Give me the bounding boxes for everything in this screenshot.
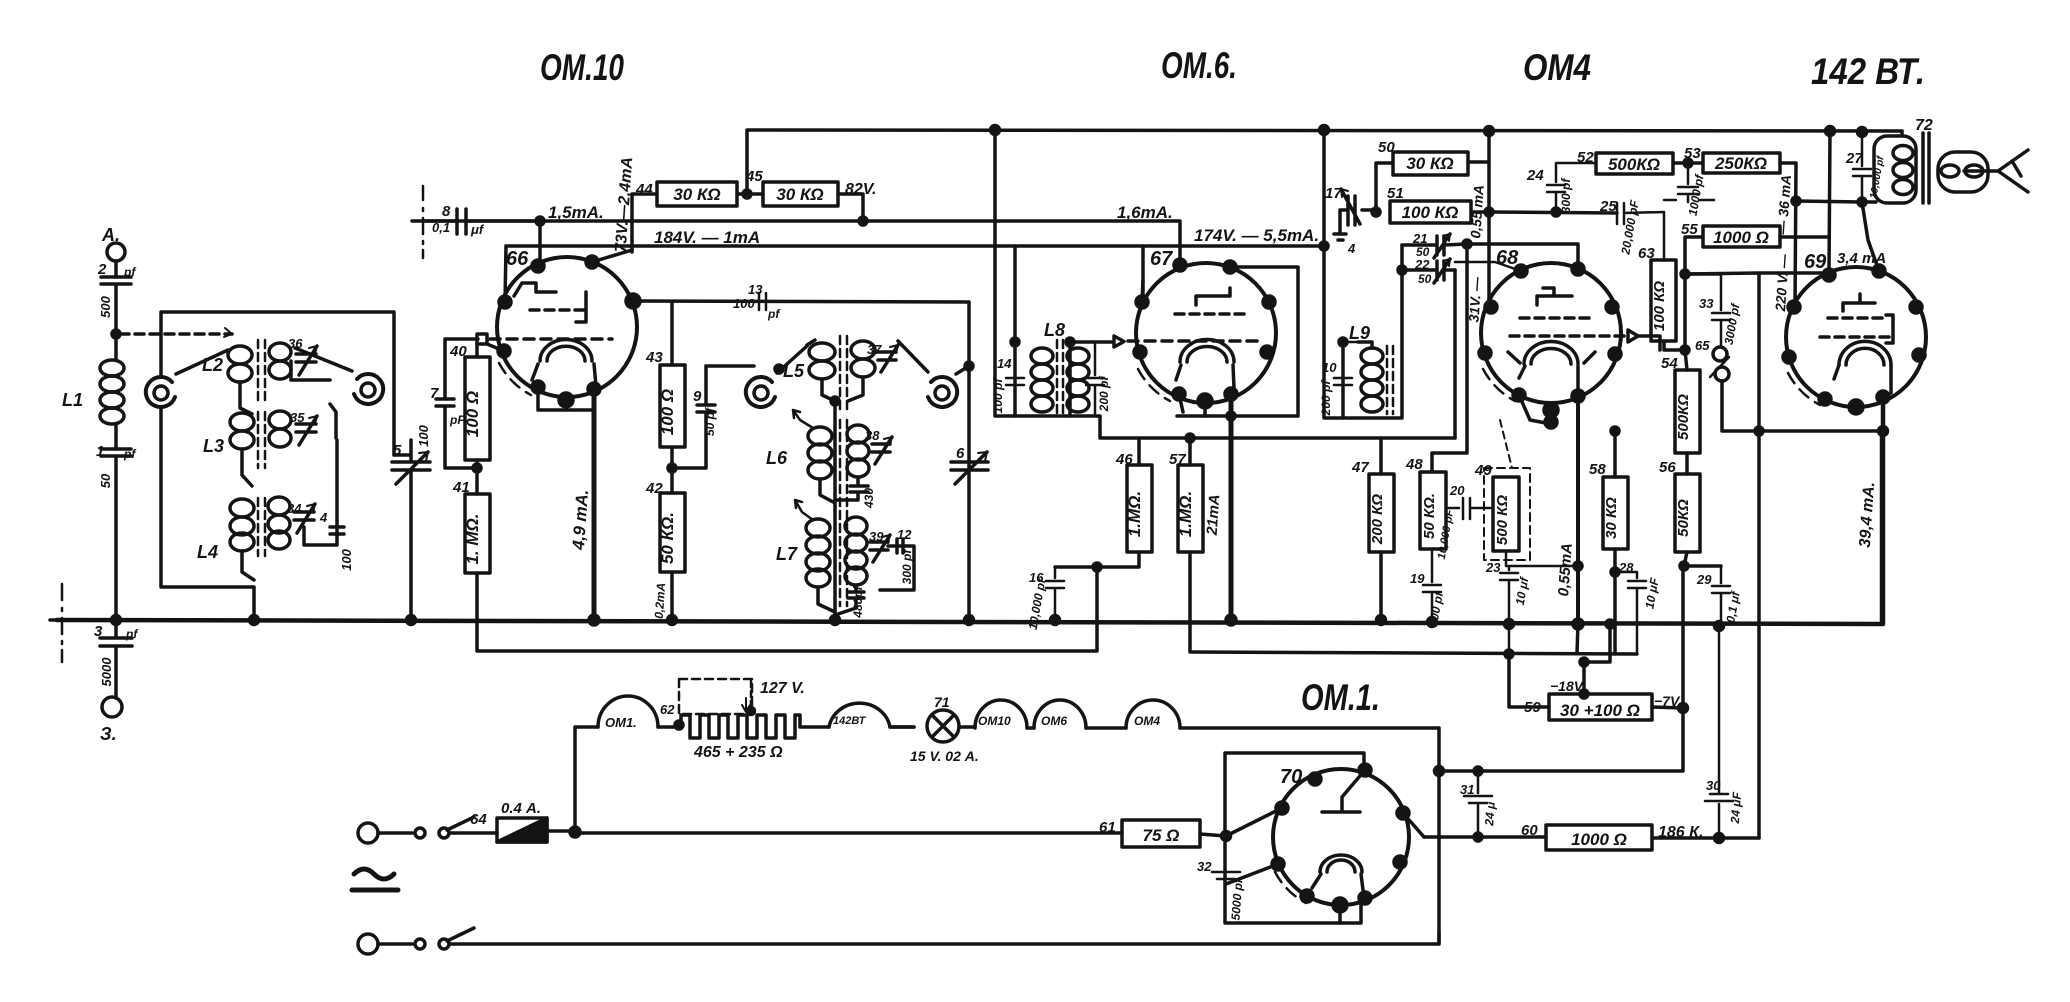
svg-text:А.: А. bbox=[101, 225, 120, 245]
wire grid branch to pin bbox=[1455, 262, 1521, 271]
svg-text:5000: 5000 bbox=[99, 657, 114, 687]
trimmer 38 bbox=[872, 437, 892, 464]
wire L7 arrow stub bbox=[795, 500, 813, 520]
wire 67 pin diagonals bbox=[1142, 280, 1205, 416]
node 42 bus bbox=[668, 616, 677, 625]
wire 53 to screen69 bbox=[1780, 163, 1796, 307]
terminal AC top bbox=[358, 823, 378, 843]
svg-text:300 pf: 300 pf bbox=[900, 549, 914, 585]
capacitor 12 (300pf) bbox=[880, 539, 914, 590]
lamp 71 (15V 02A) bbox=[927, 710, 959, 742]
tube 70 envelope bbox=[1273, 769, 1409, 905]
wire node riser to 55 bbox=[1685, 237, 1703, 350]
trimmer 39 bbox=[870, 535, 890, 562]
wire 46 top link bbox=[1070, 416, 1455, 465]
capacitor 19 (100pf) bbox=[1423, 549, 1441, 622]
wire cathode 69 (39,4mA) bbox=[1881, 397, 1886, 624]
svg-text:3,4 mА: 3,4 mА bbox=[1837, 250, 1886, 267]
svg-text:0,1: 0,1 bbox=[432, 220, 450, 235]
resistor 51 (100K) bbox=[1390, 201, 1471, 223]
core L2 dashed bbox=[258, 340, 265, 400]
node heater tap bbox=[570, 827, 580, 837]
svg-text:127 V.: 127 V. bbox=[760, 680, 805, 697]
resistor 59 (30+100 Ohm) bbox=[1549, 694, 1652, 720]
svg-text:37: 37 bbox=[867, 342, 882, 357]
resistor 63 (100K) bbox=[1651, 260, 1676, 341]
capacitor 1 (50pf) bbox=[101, 449, 131, 620]
wire frame bottom left bbox=[161, 409, 254, 620]
SECTION-TEXT bbox=[463, 154, 1769, 849]
node block bus bbox=[250, 616, 259, 625]
capacitor 15 (200pf) bbox=[1086, 342, 1104, 416]
resistor 48 (50K) bbox=[1420, 472, 1446, 549]
svg-text:2: 2 bbox=[97, 261, 107, 278]
grid cap square 66 bbox=[477, 334, 487, 344]
capacitor 8 (0,1uf) bbox=[412, 209, 540, 234]
wire y431 to cathode69 bbox=[1759, 429, 1883, 433]
svg-text:59: 59 bbox=[1524, 699, 1541, 716]
svg-text:54: 54 bbox=[1661, 355, 1678, 372]
resistor 40 (100 Ohm) bbox=[475, 344, 479, 357]
svg-text:9: 9 bbox=[693, 388, 702, 405]
svg-text:1000 Ω: 1000 Ω bbox=[1571, 830, 1627, 849]
wire 46 bottom bbox=[1055, 552, 1139, 567]
wire 63 bottom to node bbox=[1664, 341, 1685, 350]
wire 49 bottom / cap23 bbox=[1500, 551, 1578, 707]
svg-text:39: 39 bbox=[869, 529, 884, 544]
svg-text:58: 58 bbox=[1589, 461, 1606, 478]
svg-text:L8: L8 bbox=[1044, 320, 1065, 340]
speaker prongs bbox=[1998, 150, 2028, 192]
wire arm right bbox=[295, 348, 352, 371]
svg-text:186 К.: 186 К. bbox=[1658, 824, 1703, 841]
terminal AC bottom bbox=[358, 934, 378, 954]
grid arrow 68 bbox=[1628, 330, 1638, 342]
ground terminal circle bbox=[102, 697, 122, 717]
trimmer 34 bbox=[294, 504, 315, 533]
getter flash dashes 67 bbox=[1138, 369, 1170, 401]
svg-text:60: 60 bbox=[1521, 822, 1538, 839]
svg-text:31: 31 bbox=[1460, 782, 1474, 797]
fuse 64 (0.4A) bbox=[497, 818, 547, 842]
svg-text:430: 430 bbox=[862, 488, 876, 509]
svg-text:7: 7 bbox=[430, 385, 439, 402]
svg-text:40: 40 bbox=[449, 343, 467, 360]
tube 68 envelope bbox=[1481, 263, 1621, 403]
resistor 47 (200K) bbox=[1369, 474, 1394, 552]
svg-text:50 КΩ.: 50 КΩ. bbox=[1421, 493, 1438, 539]
tube 67 internals bbox=[1196, 288, 1230, 305]
svg-text:30 КΩ: 30 КΩ bbox=[1406, 154, 1453, 173]
svg-text:24 μ: 24 μ bbox=[1482, 801, 1498, 828]
capacitor 24 (300pf) bbox=[1547, 163, 1596, 212]
coil L6 right bbox=[847, 425, 869, 443]
svg-text:pf: pf bbox=[123, 447, 136, 461]
svg-text:51: 51 bbox=[1387, 185, 1404, 202]
svg-text:1,6mА.: 1,6mА. bbox=[1117, 203, 1173, 222]
arrowhead band link bbox=[224, 328, 232, 337]
svg-text:174V. — 5,5mА.: 174V. — 5,5mА. bbox=[1194, 226, 1319, 245]
wire L4 bottom bbox=[242, 551, 254, 580]
wire tap to tube pin bbox=[538, 221, 542, 266]
svg-text:31V. —: 31V. — bbox=[1465, 275, 1484, 322]
wire screen node to cap25 bbox=[1489, 212, 1617, 213]
trimmer 35 bbox=[296, 416, 317, 445]
coil L6 left bbox=[808, 427, 832, 445]
svg-text:3: 3 bbox=[94, 623, 103, 640]
wire pin66 plate-top diag bbox=[592, 250, 632, 262]
svg-text:pF: pF bbox=[449, 413, 465, 427]
svg-text:42: 42 bbox=[645, 480, 663, 497]
node 1,5mA tap bbox=[536, 217, 544, 225]
svg-text:50: 50 bbox=[1418, 272, 1432, 286]
wire 56 bottom bbox=[1684, 552, 1721, 566]
svg-text:100 Ω: 100 Ω bbox=[463, 391, 482, 437]
svg-text:30 КΩ: 30 КΩ bbox=[776, 185, 823, 204]
wire feed riser L9 bbox=[1324, 130, 1343, 418]
svg-text:100: 100 bbox=[416, 424, 431, 446]
wire L2 right coil to switch frame bbox=[291, 361, 330, 380]
svg-text:L6: L6 bbox=[766, 448, 788, 468]
variable capacitor 5 bbox=[392, 440, 430, 620]
dash-dot mark mid bbox=[422, 186, 425, 258]
core L6L7 dashed bbox=[840, 420, 847, 606]
tube 69 internals bbox=[1843, 294, 1875, 311]
wire switch arm to L2 bbox=[176, 350, 228, 374]
resistor 61 (75 Ohm) bbox=[575, 831, 1122, 835]
capacitor 16 (10000pf) bbox=[1046, 567, 1064, 620]
svg-text:−18V: −18V bbox=[1550, 678, 1585, 694]
svg-text:142ВТ: 142ВТ bbox=[833, 715, 867, 727]
wire arm L5 right bbox=[898, 341, 969, 374]
tube 68 internals bbox=[1537, 288, 1572, 305]
tube 67 envelope bbox=[1136, 263, 1276, 403]
svg-text:24: 24 bbox=[1526, 167, 1544, 184]
wire 45 to 82V bbox=[838, 194, 863, 221]
heater hump OM6 bbox=[1034, 700, 1086, 728]
svg-text:pf: pf bbox=[123, 265, 136, 279]
capacitor 13 (100pf) bbox=[759, 293, 766, 310]
tube 70 shield box bbox=[1437, 728, 1441, 944]
switch 64a contacts bbox=[415, 828, 425, 838]
svg-text:70: 70 bbox=[1280, 766, 1302, 788]
svg-text:55: 55 bbox=[1681, 221, 1698, 238]
capacitor 27 (10000pf) bbox=[1858, 128, 1867, 137]
svg-text:1000 Ω: 1000 Ω bbox=[1713, 228, 1769, 247]
svg-text:10: 10 bbox=[1322, 360, 1337, 375]
dash-dot chassis mark left bbox=[61, 584, 64, 662]
svg-text:23: 23 bbox=[1485, 560, 1501, 575]
svg-text:30 +100 Ω: 30 +100 Ω bbox=[1560, 701, 1640, 720]
svg-text:56: 56 bbox=[1659, 459, 1676, 476]
coil L2 right bbox=[269, 343, 291, 361]
resistor 46 (1M) bbox=[1127, 465, 1152, 552]
svg-text:21mА: 21mА bbox=[1204, 494, 1224, 537]
svg-text:100 КΩ: 100 КΩ bbox=[1402, 203, 1459, 222]
trimmer capacitor 17 bbox=[1334, 189, 1376, 240]
svg-text:28: 28 bbox=[1618, 560, 1634, 575]
wire 1,5mA line bbox=[423, 221, 1180, 265]
svg-text:ОМ.6.: ОМ.6. bbox=[1161, 45, 1237, 86]
wire centre riser to bus bbox=[833, 401, 837, 620]
coil L3 left bbox=[230, 413, 254, 431]
tube 70 pins bbox=[1309, 773, 1321, 785]
node 45 bbox=[743, 190, 751, 198]
svg-text:μf: μf bbox=[470, 222, 485, 237]
core L8 dashed bbox=[1057, 340, 1063, 414]
rotary switch S5-right bbox=[935, 386, 949, 400]
speaker 72 bbox=[1938, 152, 1988, 192]
coil L9 bbox=[1361, 348, 1383, 364]
wire plate load drop bbox=[1432, 244, 1467, 472]
svg-text:100: 100 bbox=[339, 548, 354, 570]
capacitor 480pf L7 bbox=[848, 585, 864, 608]
wire 73V riser bbox=[632, 194, 657, 252]
svg-text:4: 4 bbox=[319, 510, 328, 525]
node cathode bus bbox=[589, 615, 599, 625]
svg-text:100 КΩ: 100 КΩ bbox=[1651, 281, 1668, 331]
resistor 55 (1000 Ohm) bbox=[1703, 226, 1780, 247]
svg-text:49: 49 bbox=[1474, 462, 1492, 479]
svg-text:35: 35 bbox=[290, 410, 305, 425]
capacitor 30 (24uF) bbox=[1705, 626, 1733, 838]
svg-text:1. МΩ.: 1. МΩ. bbox=[463, 513, 482, 564]
wire plate line 66 bbox=[633, 301, 969, 620]
coil L7 right bbox=[845, 517, 867, 535]
capacitor 28 (10uF) bbox=[1615, 572, 1646, 654]
coil L8 left bbox=[1031, 348, 1053, 364]
capacitor 14 (100pf) bbox=[1006, 342, 1024, 385]
wire L5 centre tap bbox=[822, 377, 863, 401]
svg-text:15 V. 02 А.: 15 V. 02 А. bbox=[910, 748, 979, 764]
svg-text:68: 68 bbox=[1496, 247, 1519, 269]
svg-text:25: 25 bbox=[1599, 198, 1617, 215]
node 40-41 bbox=[473, 464, 481, 472]
svg-text:33: 33 bbox=[1699, 296, 1714, 311]
svg-text:250КΩ: 250КΩ bbox=[1714, 154, 1767, 173]
capacitor 4 (100pf) bbox=[304, 520, 344, 545]
wire 57 top link bbox=[1188, 438, 1192, 465]
svg-text:45: 45 bbox=[745, 168, 763, 185]
svg-text:ОМ1.: ОМ1. bbox=[605, 715, 637, 730]
svg-text:62: 62 bbox=[660, 702, 675, 717]
svg-text:L7: L7 bbox=[776, 544, 798, 564]
resistor 43 (100 Ohm) bbox=[670, 302, 674, 365]
wire pin66 left to 184K bbox=[505, 246, 506, 302]
capacitor 11 (430pf) bbox=[835, 477, 868, 500]
wire L6 bottom bbox=[820, 479, 835, 503]
tube 70 internals bbox=[1322, 770, 1365, 812]
grid arrow 67 bbox=[1114, 336, 1124, 347]
svg-text:500: 500 bbox=[98, 295, 113, 317]
svg-text:57: 57 bbox=[1169, 451, 1186, 468]
wire heater riser bbox=[575, 727, 598, 832]
svg-text:L2: L2 bbox=[202, 355, 223, 375]
coil L1 bbox=[114, 334, 118, 360]
wire plate line 68 bbox=[1467, 244, 1578, 269]
tube 66 pins bbox=[532, 260, 544, 272]
resistor 62 zigzag 465+235 bbox=[672, 715, 829, 738]
coil L3 right bbox=[269, 411, 291, 429]
svg-text:34: 34 bbox=[287, 501, 302, 516]
svg-text:200 КΩ: 200 КΩ bbox=[1369, 494, 1386, 545]
capacitor 20 (10000pf) bbox=[1446, 498, 1493, 519]
transformer L9 frame bbox=[1343, 245, 1402, 418]
wire 59 left riser bbox=[1509, 654, 1549, 707]
resistor 56 (50K) bbox=[1685, 453, 1689, 474]
svg-text:L3: L3 bbox=[203, 436, 224, 456]
svg-text:36: 36 bbox=[288, 336, 303, 351]
svg-text:43: 43 bbox=[645, 349, 663, 366]
svg-text:50: 50 bbox=[1378, 139, 1395, 156]
svg-text:30 КΩ: 30 КΩ bbox=[1603, 497, 1620, 539]
svg-text:L5: L5 bbox=[783, 361, 805, 381]
wire dashed band link bbox=[120, 332, 232, 336]
svg-text:1,5mА.: 1,5mА. bbox=[548, 203, 604, 222]
tube 69 envelope bbox=[1786, 267, 1926, 407]
svg-text:53: 53 bbox=[1684, 145, 1701, 162]
resistor 45 (30K) bbox=[763, 182, 838, 206]
heater hump 142BT bbox=[829, 703, 914, 727]
capacitor 31 (24uF) bbox=[1474, 767, 1482, 775]
wire grid line to L5 switch bbox=[706, 364, 754, 368]
svg-text:ОМ6: ОМ6 bbox=[1041, 714, 1067, 728]
svg-text:142 ВТ.: 142 ВТ. bbox=[1811, 51, 1925, 92]
svg-text:0,2mА: 0,2mА bbox=[652, 582, 668, 619]
resistor 53 (250K) bbox=[1703, 153, 1780, 173]
capacitor 32 (5000pf) on box edge bbox=[1212, 872, 1240, 879]
wire 57 bottom bbox=[1188, 552, 1192, 652]
node antenna-coil junction bbox=[112, 330, 120, 338]
wire bus to -18V tap bbox=[1584, 624, 1610, 694]
node grid riser bbox=[965, 362, 973, 370]
tube 69 pins bbox=[1823, 269, 1835, 281]
svg-text:1: 1 bbox=[96, 443, 104, 460]
wire 60 line bbox=[1424, 835, 1546, 839]
wire L3 link arrow bbox=[242, 404, 336, 486]
capacitor 29 (0,1uf) bbox=[1712, 566, 1730, 626]
svg-text:5: 5 bbox=[393, 442, 402, 459]
switch 65 bbox=[1713, 347, 1727, 361]
wire heater to rect block bbox=[1180, 726, 1439, 730]
svg-text:13: 13 bbox=[748, 282, 763, 297]
capacitor 7 (100pf) bbox=[436, 339, 478, 468]
svg-text:12: 12 bbox=[897, 527, 912, 542]
core L4 dashed bbox=[258, 498, 265, 556]
svg-text:17: 17 bbox=[1325, 185, 1342, 202]
wire antenna down bbox=[114, 261, 118, 277]
rotary switch S-right bbox=[361, 383, 375, 397]
svg-text:500КΩ: 500КΩ bbox=[1608, 155, 1660, 174]
svg-text:65: 65 bbox=[1695, 338, 1710, 353]
capacitor 9 (50pf) bbox=[672, 366, 715, 468]
svg-text:63: 63 bbox=[1638, 245, 1655, 262]
resistor 49 (500K) dashed shield bbox=[1493, 477, 1519, 551]
svg-text:30 КΩ: 30 КΩ bbox=[673, 185, 720, 204]
wire grid return line A bbox=[477, 567, 1097, 651]
wire B+ rail top bbox=[747, 130, 1902, 194]
resistor 54 (500K) bbox=[1685, 350, 1687, 370]
svg-text:61: 61 bbox=[1099, 819, 1116, 836]
svg-text:50: 50 bbox=[98, 473, 113, 488]
capacitor 21 (50pf trimmer) bbox=[1402, 234, 1467, 258]
wire L4 to switch column bbox=[335, 440, 339, 520]
svg-text:82V.: 82V. bbox=[845, 181, 876, 198]
node L1 bus bbox=[112, 616, 121, 625]
svg-text:ОМ.1.: ОМ.1. bbox=[1301, 677, 1380, 718]
svg-text:20: 20 bbox=[1449, 483, 1465, 498]
tube 66 internals bbox=[514, 283, 556, 296]
svg-text:6: 6 bbox=[956, 445, 965, 462]
svg-text:24 μF: 24 μF bbox=[1728, 791, 1744, 825]
svg-text:67: 67 bbox=[1150, 248, 1173, 270]
svg-text:−7V: −7V bbox=[1654, 693, 1681, 709]
tube 68 pins bbox=[1515, 265, 1527, 277]
wire grid 68 from cap22 bbox=[1381, 270, 1455, 474]
svg-text:8: 8 bbox=[442, 203, 451, 220]
node 42-43 bbox=[668, 464, 676, 472]
coil L4 left bbox=[230, 499, 254, 517]
svg-text:48: 48 bbox=[1405, 456, 1423, 473]
screen line 68 bbox=[1487, 131, 1491, 307]
rotary switch S-left bbox=[154, 386, 168, 400]
svg-text:200 pf: 200 pf bbox=[1319, 380, 1333, 417]
svg-text:pf: pf bbox=[767, 307, 780, 321]
svg-text:ОМ4: ОМ4 bbox=[1134, 714, 1160, 728]
getter flash dashes 68 bbox=[1483, 369, 1515, 401]
wire cathode 66 (4,9mA) bbox=[592, 389, 597, 620]
node rail feed L8 bbox=[991, 126, 1000, 135]
capacitor 2 (500pf) bbox=[101, 277, 131, 334]
svg-text:64: 64 bbox=[470, 811, 487, 828]
wire grid69 net bbox=[1685, 273, 1828, 838]
heater hump OM4 bbox=[1126, 700, 1180, 728]
capacitor 25 (20000pf) bbox=[1617, 203, 1664, 260]
core 72 bbox=[1923, 133, 1929, 203]
coil L2 left bbox=[228, 346, 252, 364]
resistor 50 (30K) bbox=[1393, 152, 1468, 175]
trimmer 36 bbox=[296, 346, 317, 375]
resistor 58 (30K) bbox=[1613, 431, 1617, 477]
tap 62 dashed box bbox=[679, 679, 752, 714]
switch 64b contacts bbox=[415, 939, 425, 949]
svg-text:38: 38 bbox=[865, 428, 880, 443]
svg-text:21: 21 bbox=[1412, 231, 1427, 246]
core L5 dashed bbox=[840, 336, 847, 410]
svg-text:100 Ω: 100 Ω bbox=[658, 389, 677, 435]
svg-text:44: 44 bbox=[635, 181, 653, 198]
getter flash dashes 66 bbox=[499, 363, 531, 395]
svg-text:29: 29 bbox=[1696, 572, 1712, 587]
wire bias line B bbox=[1192, 624, 1637, 654]
capacitor 18 (1000pf) bbox=[1664, 163, 1714, 202]
wire heater 66 bbox=[538, 387, 594, 410]
resistor 57 (1M) bbox=[1178, 465, 1203, 552]
wire ground bus bbox=[57, 431, 1882, 624]
transformer L8 frame bbox=[1015, 246, 1114, 416]
svg-text:71: 71 bbox=[934, 694, 950, 710]
wire 184K line bbox=[506, 244, 1322, 248]
svg-text:41: 41 bbox=[452, 479, 470, 496]
svg-text:47: 47 bbox=[1351, 459, 1369, 476]
wire L2 left down bbox=[240, 382, 252, 414]
svg-text:З.: З. bbox=[100, 724, 117, 744]
svg-text:ОМ.10: ОМ.10 bbox=[540, 47, 624, 88]
AC sym bbox=[352, 869, 398, 890]
svg-text:1.МΩ.: 1.МΩ. bbox=[1125, 491, 1144, 537]
svg-text:1.МΩ.: 1.МΩ. bbox=[1176, 491, 1195, 537]
resistor 44 (30K) bbox=[657, 182, 737, 206]
